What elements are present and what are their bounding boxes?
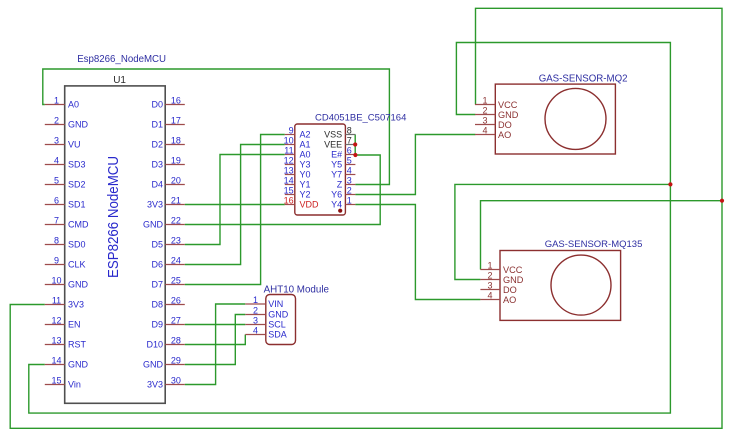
junction VEE tie bbox=[353, 142, 357, 146]
svg-text:Y5: Y5 bbox=[331, 160, 342, 170]
CD4051 pin 16 (VDD) bbox=[284, 195, 319, 209]
svg-text:D2: D2 bbox=[151, 140, 163, 150]
svg-text:3: 3 bbox=[482, 115, 487, 125]
svg-text:3: 3 bbox=[347, 175, 352, 185]
svg-text:15: 15 bbox=[51, 375, 61, 385]
svg-text:SCL: SCL bbox=[268, 320, 286, 330]
junction E# tie bbox=[353, 153, 357, 157]
svg-text:15: 15 bbox=[284, 185, 294, 195]
CD4051 pin 1 (Y4) bbox=[331, 195, 355, 209]
wire A0 net: ESP U1 pin1 A0 to CD4051 U2 pin3 Z bbox=[43, 69, 390, 185]
svg-text:AO: AO bbox=[498, 130, 511, 140]
svg-text:GND: GND bbox=[498, 110, 519, 120]
U1 pin 18 (D2) bbox=[151, 135, 184, 149]
svg-text:VSS: VSS bbox=[324, 130, 342, 140]
GAS-SENSOR-MQ135 circle bbox=[551, 255, 611, 315]
AHT10 pin 1 (VIN) bbox=[245, 295, 283, 309]
svg-text:1: 1 bbox=[347, 195, 352, 205]
svg-text:SD0: SD0 bbox=[68, 240, 86, 250]
svg-text:Y0: Y0 bbox=[300, 170, 311, 180]
svg-text:4: 4 bbox=[253, 325, 258, 335]
U1 pin 19 (D3) bbox=[151, 155, 184, 169]
svg-text:9: 9 bbox=[54, 255, 59, 265]
MQ135 pin 2 (GND) bbox=[480, 270, 523, 285]
svg-text:2: 2 bbox=[347, 185, 352, 195]
svg-text:13: 13 bbox=[51, 335, 61, 345]
svg-text:SD3: SD3 bbox=[68, 160, 86, 170]
U1 pin 3 (VU) bbox=[45, 135, 81, 149]
svg-text:5: 5 bbox=[54, 175, 59, 185]
svg-text:4: 4 bbox=[347, 165, 352, 175]
U1 pin 24 (D6) bbox=[151, 255, 184, 269]
U1 pin 23 (D5) bbox=[151, 235, 184, 249]
svg-text:17: 17 bbox=[171, 115, 181, 125]
svg-text:U1: U1 bbox=[113, 75, 126, 86]
wire ESP pin24 D6 to CD4051 A1 bbox=[185, 145, 285, 265]
svg-text:7: 7 bbox=[54, 215, 59, 225]
svg-text:30: 30 bbox=[171, 375, 181, 385]
wire ESP pin28 D10 to AHT10 SDA bbox=[185, 335, 246, 345]
U1 pin 20 (D4) bbox=[151, 175, 184, 189]
svg-text:VDD: VDD bbox=[300, 200, 320, 210]
svg-text:DO: DO bbox=[503, 285, 517, 295]
junction at CD4051 Y4 corner bbox=[338, 209, 342, 213]
U1 pin 30 (3V3) bbox=[147, 375, 185, 389]
U1 pin 21 (3V3) bbox=[147, 195, 185, 209]
svg-text:D5: D5 bbox=[151, 240, 163, 250]
svg-text:GND: GND bbox=[503, 275, 524, 285]
svg-text:18: 18 bbox=[171, 135, 181, 145]
svg-text:D8: D8 bbox=[151, 300, 163, 310]
CD4051 pin 10 (A1) bbox=[284, 135, 311, 149]
CD4051 pin 13 (Y0) bbox=[284, 165, 311, 179]
svg-text:Y6: Y6 bbox=[331, 190, 342, 200]
svg-text:D10: D10 bbox=[146, 340, 163, 350]
CD4051 pin 4 (Y7) bbox=[331, 165, 355, 179]
svg-text:D6: D6 bbox=[151, 260, 163, 270]
svg-text:GAS-SENSOR-MQ135: GAS-SENSOR-MQ135 bbox=[545, 239, 643, 250]
svg-text:ESP8266 NodeMCU: ESP8266 NodeMCU bbox=[105, 156, 122, 278]
svg-text:29: 29 bbox=[171, 355, 181, 365]
svg-text:Y7: Y7 bbox=[331, 170, 342, 180]
svg-text:8: 8 bbox=[347, 125, 352, 135]
svg-text:12: 12 bbox=[51, 315, 61, 325]
svg-text:3V3: 3V3 bbox=[147, 200, 163, 210]
U1 pin 2 (GND) bbox=[45, 115, 89, 129]
svg-text:Y1: Y1 bbox=[300, 180, 311, 190]
U1 pin 7 (CMD) bbox=[45, 215, 89, 229]
sensor GAS-SENSOR-MQ135 body bbox=[500, 251, 621, 321]
svg-text:16: 16 bbox=[171, 95, 181, 105]
svg-text:GND: GND bbox=[68, 120, 89, 130]
svg-text:GND: GND bbox=[68, 280, 89, 290]
wire ESP pin27 D9 to AHT10 SCL bbox=[185, 324, 246, 326]
svg-text:1: 1 bbox=[253, 295, 258, 305]
svg-text:2: 2 bbox=[253, 305, 258, 315]
MQ2 pin 4 (AO) bbox=[475, 125, 511, 140]
svg-text:CD4051BE_C507164: CD4051BE_C507164 bbox=[315, 113, 406, 124]
CD4051 pin 14 (Y1) bbox=[284, 175, 311, 189]
CD4051 pin 9 (A2) bbox=[285, 125, 311, 139]
junction 3V3 net right bbox=[720, 199, 724, 203]
svg-text:5: 5 bbox=[347, 155, 352, 165]
svg-text:VCC: VCC bbox=[503, 265, 523, 275]
U1 pin 29 (GND) bbox=[143, 355, 185, 369]
AHT10 pin 2 (GND) bbox=[245, 305, 288, 319]
U1 pin 9 (CLK) bbox=[45, 255, 86, 269]
svg-text:2: 2 bbox=[54, 115, 59, 125]
svg-text:4: 4 bbox=[54, 155, 59, 165]
MQ2 pin 1 (VCC) bbox=[475, 95, 518, 110]
sensor GAS-SENSOR-MQ2 body bbox=[495, 84, 615, 154]
svg-text:27: 27 bbox=[171, 315, 181, 325]
svg-text:SD2: SD2 bbox=[68, 180, 86, 190]
svg-text:4: 4 bbox=[487, 290, 492, 300]
MQ2 pin 2 (GND) bbox=[475, 105, 519, 120]
svg-text:EN: EN bbox=[68, 320, 81, 330]
svg-text:10: 10 bbox=[51, 275, 61, 285]
svg-text:1: 1 bbox=[54, 95, 59, 105]
svg-text:12: 12 bbox=[284, 155, 294, 165]
svg-text:D1: D1 bbox=[151, 120, 163, 130]
svg-text:21: 21 bbox=[171, 195, 181, 205]
sensor AHT10 Module body bbox=[266, 295, 296, 345]
svg-text:A0: A0 bbox=[68, 100, 79, 110]
svg-text:23: 23 bbox=[171, 235, 181, 245]
svg-text:1: 1 bbox=[487, 260, 492, 270]
svg-text:AO: AO bbox=[503, 295, 516, 305]
mux CD4051BE_C507164 body bbox=[295, 124, 346, 215]
wire GND net: ESP pin14 GND around bottom and right to MQ2 GND bbox=[29, 43, 671, 414]
wire ESP pin23 D5 to CD4051 A0 bbox=[185, 155, 285, 245]
svg-text:2: 2 bbox=[482, 105, 487, 115]
svg-text:25: 25 bbox=[171, 275, 181, 285]
svg-text:16: 16 bbox=[284, 195, 294, 205]
U1 pin 6 (SD1) bbox=[45, 195, 86, 209]
svg-text:8: 8 bbox=[54, 235, 59, 245]
svg-text:GND: GND bbox=[143, 360, 164, 370]
junction GND net right bbox=[668, 182, 672, 186]
svg-text:19: 19 bbox=[171, 155, 181, 165]
CD4051 pin 6 (E#) bbox=[331, 145, 355, 159]
wire ESP pin29 GND to AHT10 GND bbox=[185, 315, 246, 365]
svg-text:3: 3 bbox=[54, 135, 59, 145]
svg-text:2: 2 bbox=[487, 270, 492, 280]
svg-text:Esp8266_NodeMCU: Esp8266_NodeMCU bbox=[77, 54, 166, 65]
svg-text:Y4: Y4 bbox=[331, 200, 342, 210]
svg-text:7: 7 bbox=[347, 135, 352, 145]
U1 pin 28 (D10) bbox=[146, 335, 184, 349]
GAS-SENSOR-MQ2 circle bbox=[545, 88, 606, 149]
U1 pin 4 (SD3) bbox=[45, 155, 86, 169]
svg-text:Y2: Y2 bbox=[300, 190, 311, 200]
svg-text:VEE: VEE bbox=[324, 140, 342, 150]
svg-text:22: 22 bbox=[171, 215, 181, 225]
svg-text:GND: GND bbox=[68, 360, 89, 370]
CD4051 pin 11 (A0) bbox=[284, 145, 310, 159]
svg-text:SDA: SDA bbox=[268, 330, 287, 340]
svg-text:Z: Z bbox=[337, 180, 343, 190]
CD4051 pin 3 (Z) bbox=[337, 175, 356, 189]
MQ135 pin 1 (VCC) bbox=[480, 260, 522, 275]
wire 3V3 net branch: junction to MQ135 VCC bbox=[481, 201, 723, 270]
svg-text:DO: DO bbox=[498, 120, 512, 130]
svg-text:D4: D4 bbox=[151, 180, 163, 190]
svg-text:11: 11 bbox=[52, 295, 61, 305]
U1 pin 15 (Vin) bbox=[45, 375, 81, 389]
U1 pin 10 (GND) bbox=[45, 275, 89, 289]
op ESP8266 NodeMCU U1 body bbox=[65, 86, 166, 403]
svg-text:6: 6 bbox=[347, 145, 352, 155]
svg-text:CLK: CLK bbox=[68, 260, 86, 270]
svg-text:1: 1 bbox=[482, 95, 487, 105]
MQ135 pin 4 (AO) bbox=[480, 290, 516, 305]
svg-text:9: 9 bbox=[289, 125, 294, 135]
U1 pin 5 (SD2) bbox=[45, 175, 86, 189]
svg-text:D9: D9 bbox=[151, 320, 163, 330]
svg-text:3V3: 3V3 bbox=[68, 300, 84, 310]
svg-text:3: 3 bbox=[253, 315, 258, 325]
svg-text:14: 14 bbox=[284, 175, 294, 185]
svg-text:Vin: Vin bbox=[68, 380, 81, 390]
svg-text:E#: E# bbox=[331, 150, 342, 160]
CD4051 pin 7 (VEE) bbox=[324, 135, 355, 149]
wire CD4051 Y4 to MQ135 AO bbox=[355, 205, 480, 300]
svg-text:10: 10 bbox=[284, 135, 294, 145]
svg-text:28: 28 bbox=[171, 335, 181, 345]
U1 pin 11 (3V3) bbox=[45, 295, 84, 309]
svg-text:26: 26 bbox=[171, 295, 181, 305]
U1 pin 25 (D7) bbox=[151, 275, 184, 289]
svg-text:A2: A2 bbox=[300, 130, 311, 140]
svg-text:11: 11 bbox=[284, 145, 293, 155]
U1 pin 1 (A0) bbox=[45, 95, 79, 109]
AHT10 pin 3 (SCL) bbox=[245, 315, 286, 329]
CD4051 pin 15 (Y2) bbox=[284, 185, 311, 199]
U1 pin 14 (GND) bbox=[45, 355, 89, 369]
svg-text:3V3: 3V3 bbox=[147, 380, 163, 390]
wire E# to ESP pin22 GND bbox=[185, 155, 380, 225]
svg-text:GND: GND bbox=[143, 220, 164, 230]
svg-text:D0: D0 bbox=[151, 100, 163, 110]
wire GND net branch: junction to MQ135 GND bbox=[455, 184, 671, 279]
wire VSS-VEE-E# tie on CD4051 bbox=[354, 135, 356, 156]
svg-text:14: 14 bbox=[51, 355, 61, 365]
svg-text:24: 24 bbox=[171, 255, 181, 265]
svg-text:VU: VU bbox=[68, 140, 81, 150]
svg-text:D7: D7 bbox=[151, 280, 163, 290]
svg-text:RST: RST bbox=[68, 340, 87, 350]
wire ESP pin30 3V3 to AHT10 VIN bbox=[185, 304, 246, 385]
svg-text:3: 3 bbox=[487, 280, 492, 290]
svg-text:13: 13 bbox=[284, 165, 294, 175]
svg-text:6: 6 bbox=[54, 195, 59, 205]
U1 pin 8 (SD0) bbox=[45, 235, 86, 249]
U1 pin 12 (EN) bbox=[45, 315, 81, 329]
CD4051 pin 8 (VSS) bbox=[324, 125, 355, 139]
svg-text:A1: A1 bbox=[300, 140, 311, 150]
wire ESP pin21 3V3 to CD4051 VDD bbox=[185, 204, 285, 206]
svg-text:4: 4 bbox=[482, 125, 487, 135]
svg-text:SD1: SD1 bbox=[68, 200, 86, 210]
svg-text:VIN: VIN bbox=[268, 299, 283, 309]
svg-text:GAS-SENSOR-MQ2: GAS-SENSOR-MQ2 bbox=[539, 74, 628, 85]
AHT10 pin 4 (SDA) bbox=[245, 325, 287, 339]
U1 pin 13 (RST) bbox=[45, 335, 87, 349]
CD4051 pin 12 (Y3) bbox=[284, 155, 311, 169]
MQ135 pin 3 (DO) bbox=[480, 280, 516, 295]
MQ2 pin 3 (DO) bbox=[475, 115, 512, 130]
U1 pin 22 (GND) bbox=[143, 215, 185, 229]
U1 pin 26 (D8) bbox=[151, 295, 184, 309]
svg-text:Y3: Y3 bbox=[300, 160, 311, 170]
wire ESP pin25 D7 to CD4051 A2 bbox=[185, 135, 285, 285]
wire CD4051 Y6 to MQ2 AO bbox=[355, 135, 475, 195]
svg-text:CMD: CMD bbox=[68, 220, 89, 230]
svg-text:D3: D3 bbox=[151, 160, 163, 170]
svg-text:GND: GND bbox=[268, 310, 289, 320]
CD4051 pin 5 (Y5) bbox=[331, 155, 355, 169]
svg-text:A0: A0 bbox=[300, 150, 311, 160]
svg-text:VCC: VCC bbox=[498, 100, 518, 110]
U1 pin 16 (D0) bbox=[151, 95, 184, 109]
U1 pin 27 (D9) bbox=[151, 315, 184, 329]
CD4051 pin 2 (Y6) bbox=[331, 185, 355, 199]
svg-text:AHT10 Module: AHT10 Module bbox=[264, 284, 330, 295]
svg-text:20: 20 bbox=[171, 175, 181, 185]
U1 pin 17 (D1) bbox=[151, 115, 184, 129]
